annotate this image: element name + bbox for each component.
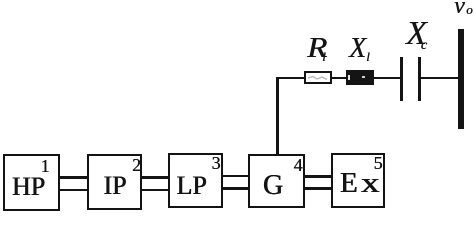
wire: capacitor to bus [419,77,458,80]
block LP (mass 3) [168,153,223,208]
resistor R_l [304,71,332,84]
wire: X_l to capacitor [372,77,402,80]
wire: resistor to X_l [330,77,348,80]
label X_c [406,17,427,54]
shaft HP-IP [58,176,89,179]
wire: corner to resistor R_l [276,77,306,80]
block HP (mass 1) [3,154,60,211]
inductor X_l (solid block) [346,70,374,85]
label v_o [454,0,473,18]
inductor X_l scan notch [348,75,350,80]
shaft IP-LP [140,176,170,179]
capacitor X_c right plate [418,57,421,101]
block IP (mass 2) [87,154,142,210]
infinite bus bar [458,29,464,129]
capacitor X_c left plate [400,57,403,101]
wire: vertical from G up to line [276,77,279,155]
block G (mass 4) [248,154,305,208]
block Ex (mass 5) [331,153,385,208]
shaft G-Ex [303,175,333,178]
label X_l [349,35,370,63]
shaft LP-G [221,175,250,178]
label R_l [307,35,326,63]
